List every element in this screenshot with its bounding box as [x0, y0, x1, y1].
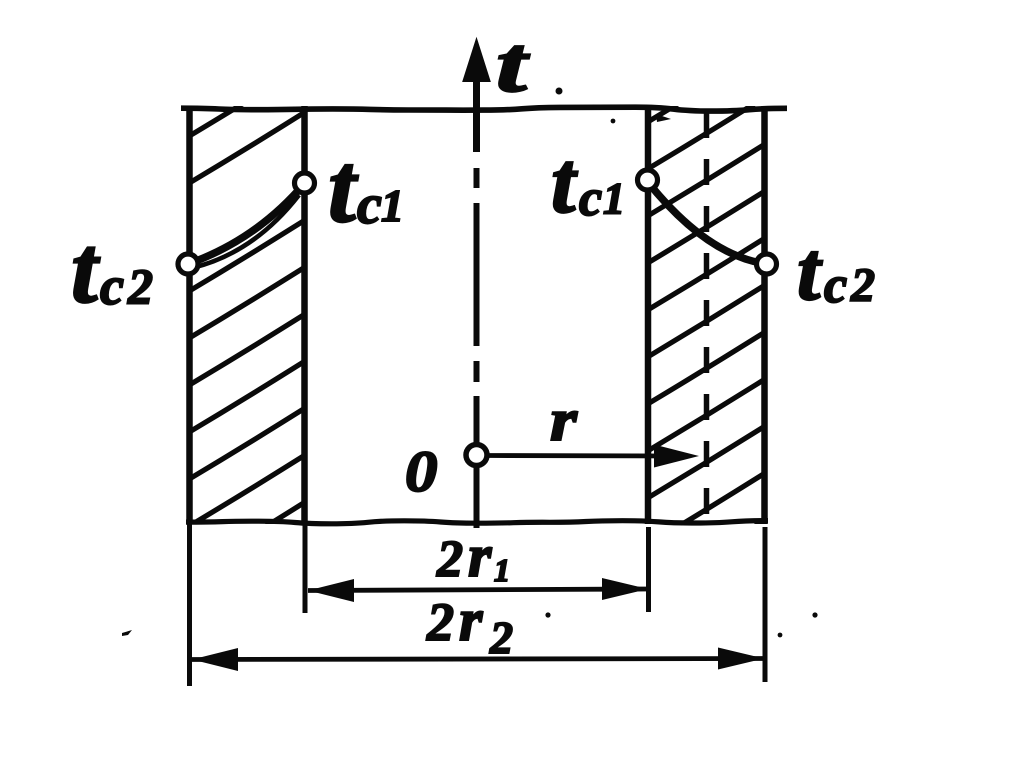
label 2r1 — [436, 523, 510, 589]
extension line right outer — [763, 527, 768, 682]
bottom boundary line — [186, 521, 768, 524]
svg-text:2: 2 — [436, 531, 463, 588]
temperature curve left wall — [188, 184, 304, 264]
label t_c2 right — [797, 225, 875, 318]
label t_c2 left — [71, 216, 153, 323]
svg-text:t: t — [496, 20, 530, 109]
scan speck right 2 — [778, 633, 783, 638]
label r — [550, 386, 578, 453]
svg-text:t: t — [551, 135, 578, 232]
label 2r2 — [426, 587, 513, 663]
hatching left wall — [167, 39, 346, 586]
node t_c1 right — [638, 170, 658, 190]
svg-text:c: c — [100, 256, 124, 316]
extension line left inner — [303, 524, 308, 613]
scan speck below top line — [611, 119, 616, 124]
node t_c2 left — [178, 254, 198, 274]
dashed line right wall — [704, 112, 710, 524]
svg-text:1: 1 — [381, 180, 404, 231]
temperature curve right wall — [647, 181, 767, 264]
extension line left outer — [187, 524, 192, 686]
svg-text:2: 2 — [426, 592, 454, 652]
node t_c1 left — [295, 173, 315, 193]
svg-text:r: r — [550, 386, 578, 453]
right wall inner edge — [645, 106, 652, 524]
scan speck top center — [556, 88, 563, 95]
left wall inner edge — [301, 106, 308, 524]
svg-text:2: 2 — [127, 258, 153, 314]
dimension line 2r2 — [192, 659, 764, 660]
svg-text:1: 1 — [494, 552, 510, 588]
label O origin — [405, 440, 437, 504]
dimension line 2r1 — [308, 589, 648, 591]
scan speck right 1 — [812, 612, 817, 617]
scan speck bottom left — [122, 630, 132, 636]
svg-text:t: t — [797, 225, 823, 318]
svg-text:r: r — [459, 587, 483, 653]
right wall outer edge — [761, 106, 768, 524]
r coordinate arrow — [488, 453, 668, 458]
top boundary line — [181, 107, 787, 111]
left wall outer edge — [186, 106, 193, 524]
origin node O — [466, 445, 487, 466]
hatching right wall — [627, 24, 806, 604]
extension line right inner — [646, 527, 651, 612]
svg-text:t: t — [71, 216, 101, 323]
svg-text:c: c — [357, 174, 382, 236]
label t_c1 right — [551, 135, 625, 232]
scan speck mid dim — [545, 612, 550, 617]
node t_c2 right — [757, 254, 777, 274]
svg-text:2: 2 — [850, 259, 875, 312]
svg-text:t: t — [328, 132, 359, 243]
svg-text:c: c — [579, 170, 602, 227]
svg-text:1: 1 — [603, 174, 625, 223]
retrace line under left temperature curve — [192, 195, 299, 268]
svg-text:0: 0 — [405, 440, 437, 504]
label t (axis) — [496, 20, 530, 109]
svg-text:r: r — [468, 523, 492, 589]
svg-text:c: c — [824, 257, 847, 314]
t axis arrow — [464, 40, 490, 81]
svg-text:2: 2 — [489, 612, 513, 663]
label t_c1 left — [328, 132, 404, 243]
scan tick top right corner — [656, 114, 671, 122]
